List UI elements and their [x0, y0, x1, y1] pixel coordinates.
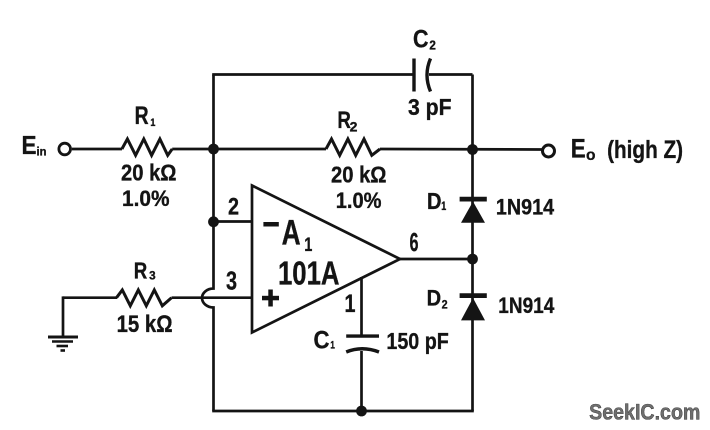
terminal input	[59, 143, 71, 155]
svg-text:SeekIC.com: SeekIC.com	[589, 400, 700, 425]
wire left vertical with hop over pin3 wire	[202, 75, 213, 412]
ground drop wire	[62, 296, 65, 337]
junction pin6 node	[467, 254, 478, 265]
diode D1	[460, 199, 487, 223]
svg-text:101A: 101A	[278, 255, 340, 292]
svg-text:1: 1	[150, 117, 155, 129]
capacitor C1	[346, 336, 379, 352]
resistor R3	[117, 290, 172, 306]
label D2	[427, 285, 448, 311]
svg-text:in: in	[37, 145, 47, 159]
svg-text:20 kΩ: 20 kΩ	[121, 160, 177, 186]
wire top feedback left segment	[212, 73, 414, 76]
label A1	[282, 213, 313, 256]
svg-text:3: 3	[149, 269, 156, 283]
svg-text:150 pF: 150 pF	[386, 328, 448, 354]
capacitor C2	[414, 59, 431, 92]
op-amp plus sign	[262, 290, 279, 307]
junction bottom node	[356, 406, 367, 417]
label R2	[337, 107, 357, 134]
resistor R2	[326, 139, 380, 155]
wire R2 to output terminal	[380, 148, 542, 151]
svg-text:3: 3	[226, 268, 237, 296]
svg-text:2: 2	[228, 193, 239, 220]
label R1	[135, 102, 156, 130]
svg-text:R: R	[135, 102, 149, 130]
svg-text:2: 2	[442, 298, 448, 312]
svg-text:1N914: 1N914	[498, 293, 555, 318]
wire input to R1	[72, 148, 122, 151]
svg-text:(high Z): (high Z)	[607, 136, 683, 164]
svg-text:2: 2	[350, 120, 358, 135]
svg-text:E: E	[22, 130, 37, 160]
svg-text:A: A	[282, 213, 301, 253]
op-amp A1	[252, 186, 400, 333]
svg-text:1: 1	[330, 339, 335, 351]
pin 2 wire	[214, 220, 253, 223]
svg-text:3 pF: 3 pF	[408, 94, 452, 120]
wire R3 to pin 3	[172, 296, 253, 299]
wire ground to R3	[63, 296, 117, 299]
junction input node	[208, 144, 219, 155]
label C1	[314, 326, 335, 354]
svg-text:C: C	[413, 26, 429, 54]
pin 1 wire	[360, 277, 363, 335]
pin 6 wire	[399, 258, 473, 261]
junction output node	[467, 144, 478, 155]
wire top feedback right segment	[429, 73, 473, 76]
terminal output	[543, 145, 555, 157]
svg-text:1: 1	[304, 235, 312, 256]
svg-text:1: 1	[345, 290, 356, 318]
svg-text:6: 6	[410, 229, 419, 257]
junction pin2 node	[208, 216, 219, 227]
resistor R1	[122, 139, 172, 155]
svg-text:15 kΩ: 15 kΩ	[117, 311, 173, 338]
svg-text:20 kΩ: 20 kΩ	[331, 161, 387, 187]
label D1	[427, 188, 446, 214]
wire R1 to R2	[172, 148, 326, 151]
svg-text:1: 1	[441, 199, 446, 213]
svg-text:R: R	[134, 257, 148, 283]
diode D2	[460, 296, 487, 321]
op-amp minus sign	[263, 222, 278, 227]
svg-text:D: D	[427, 285, 442, 310]
ground	[48, 337, 78, 351]
svg-text:2: 2	[429, 38, 436, 53]
node Eo label	[571, 134, 683, 165]
svg-text:C: C	[314, 326, 330, 354]
label R3	[134, 257, 156, 283]
svg-text:E: E	[571, 134, 586, 164]
wire right vertical	[471, 75, 474, 412]
svg-text:o: o	[586, 147, 596, 164]
svg-text:1.0%: 1.0%	[336, 188, 382, 213]
wire C1 to bottom	[360, 351, 363, 411]
svg-text:1N914: 1N914	[496, 195, 555, 220]
svg-text:1.0%: 1.0%	[122, 186, 170, 211]
label C2	[413, 26, 436, 54]
node Ein label	[22, 130, 47, 160]
svg-text:D: D	[427, 188, 442, 214]
wire bottom	[212, 410, 474, 413]
